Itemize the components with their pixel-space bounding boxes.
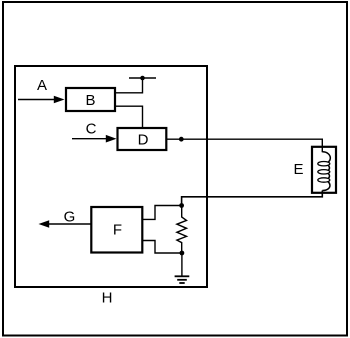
svg-text:B: B xyxy=(85,92,95,109)
svg-text:C: C xyxy=(86,121,97,138)
svg-text:D: D xyxy=(138,132,149,149)
svg-text:F: F xyxy=(113,222,122,239)
svg-text:A: A xyxy=(37,77,47,94)
svg-text:H: H xyxy=(102,290,113,307)
svg-text:G: G xyxy=(64,209,76,226)
svg-text:E: E xyxy=(293,161,303,178)
